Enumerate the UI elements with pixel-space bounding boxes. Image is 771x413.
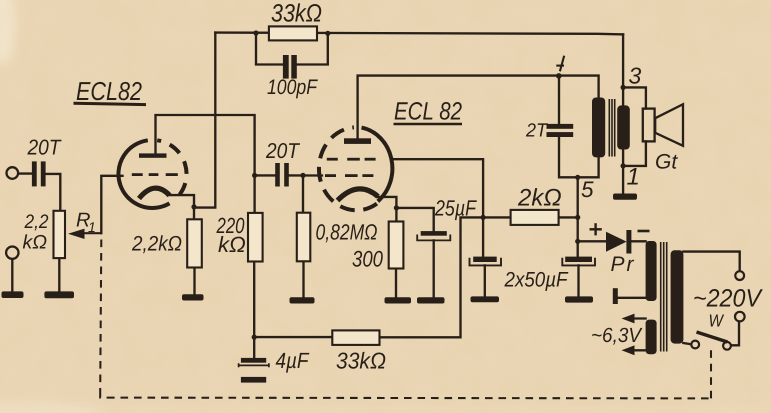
- svg-text:0,82MΩ: 0,82MΩ: [316, 220, 378, 245]
- svg-text:1: 1: [88, 219, 96, 235]
- node: 33k right: [325, 31, 330, 36]
- power transformer 220V winding: [671, 250, 684, 343]
- underline ECL82 first: [74, 103, 147, 104]
- input jack upper: [7, 167, 19, 179]
- output transformer core: [609, 99, 614, 157]
- svg-text:kΩ: kΩ: [218, 232, 246, 257]
- node: 33k left: [253, 30, 258, 35]
- wire: speaker top lead: [623, 87, 646, 108]
- svg-text:5: 5: [581, 177, 594, 202]
- wire: 6.3V winding bottom tap: [631, 349, 646, 351]
- capacitor 4uF: [239, 358, 269, 383]
- scan artifact: light top-left edge: [0, 0, 16, 65]
- wire: 2.2k cathode resistor to ground: [193, 268, 195, 295]
- capacitor 100pF: [283, 55, 297, 79]
- wire: 6.3V winding top tap: [631, 317, 646, 319]
- wire: screen grid line to 2k node: [392, 159, 483, 256]
- tube V1 ECL82 triode: envelope: [118, 140, 186, 208]
- underline ECL 82 second: [394, 123, 463, 125]
- node: coupling cap left: [252, 173, 257, 178]
- svg-text:4µF: 4µF: [276, 348, 310, 373]
- tube V2 cathode: [338, 189, 379, 201]
- minus sign: [638, 230, 650, 233]
- wire: tube1 plate to coupling cap corner: [156, 115, 255, 175]
- ground: 50uF B: [565, 296, 593, 302]
- wire: 4uF node to 33k feedback resistor: [254, 336, 332, 338]
- ground: under transformer pin 1: [613, 194, 637, 200]
- ground: 50uF A: [471, 296, 500, 302]
- wire: tube2 cathode lead: [378, 197, 397, 222]
- switch W lever: [697, 332, 728, 342]
- wire: 2T cap bottom to transformer bottom line: [559, 137, 599, 177]
- capacitor 20T input: [32, 161, 46, 186]
- switch W contact left: [691, 341, 699, 349]
- ground: 25uF: [417, 297, 445, 303]
- resistor 2.2k pot body R1: [54, 211, 66, 258]
- node: tube2 cathode: [394, 205, 399, 210]
- power transformer HT bottom terminal bar: [613, 288, 618, 304]
- node: 4uF: [252, 335, 257, 340]
- svg-text:~6,3V: ~6,3V: [591, 324, 643, 347]
- wire: 20T cap down to pot top: [46, 174, 61, 211]
- R1 wiper arrow line: [82, 232, 101, 234]
- wire: 2T cap top lead: [558, 76, 560, 124]
- wire: grid node down to 0.82M: [302, 175, 304, 212]
- node: speaker pin 1: [621, 163, 626, 168]
- resistor 33k top: [269, 26, 317, 40]
- node: tube2 grid: [300, 173, 305, 178]
- plus sign: [590, 223, 602, 235]
- svg-text:2x50µF: 2x50µF: [504, 269, 569, 292]
- scan artifact: light bottom edge: [0, 408, 771, 413]
- node: screen/50uF: [481, 215, 486, 220]
- svg-text:33kΩ: 33kΩ: [271, 0, 322, 28]
- resistor 0.82M: [297, 213, 311, 262]
- svg-text:25µF: 25µF: [434, 196, 477, 221]
- svg-text:3: 3: [629, 63, 642, 89]
- tube V2 plate: [344, 138, 371, 144]
- power transformer HT winding: [646, 241, 657, 301]
- svg-text:Gt: Gt: [655, 151, 678, 174]
- ground: lower input jack: [2, 291, 24, 298]
- speaker Gt: [643, 104, 683, 146]
- wire: pin5 node down through 2k node and diode node: [577, 177, 579, 256]
- svg-text:100pF: 100pF: [267, 76, 318, 99]
- wire: top feedback bus from node above tube1 to speaker node 3: [215, 33, 623, 35]
- tube V1 cathode: [139, 188, 170, 198]
- tube V1 plate: [139, 153, 167, 157]
- node: transformer pin 5: [575, 175, 580, 180]
- svg-text:20T: 20T: [27, 136, 63, 160]
- resistor 220k: [248, 213, 263, 262]
- node: transformer pin 4: [556, 73, 562, 79]
- wire: pot bottom to ground: [58, 258, 60, 292]
- node: speaker pin 3: [621, 85, 626, 90]
- diode Pr: [606, 230, 631, 254]
- svg-text:2,2: 2,2: [24, 211, 49, 233]
- wire: 100pF right branch: [296, 33, 328, 64]
- svg-text:ECL 82: ECL 82: [394, 98, 462, 126]
- node: 2k right B+: [575, 215, 580, 220]
- wire: lower input jack stem: [11, 259, 13, 292]
- wire: tube1 cathode lead: [169, 195, 195, 219]
- resistor 2.2k cathode: [187, 219, 202, 267]
- wire: 220V winding top tap to terminal: [683, 252, 739, 271]
- node: tube1 cathode: [191, 204, 196, 209]
- resistor 2k: [511, 210, 559, 225]
- svg-text:W: W: [709, 311, 725, 331]
- svg-text:2,2kΩ: 2,2kΩ: [131, 233, 182, 256]
- wire: switch to upper mains terminal: [731, 322, 739, 346]
- scan artifact: light bottom-left corner: [0, 401, 100, 413]
- wire: 50uF A stem to ground: [484, 265, 486, 296]
- wire: 220k bottom lead down to 4uF node: [253, 262, 255, 359]
- tube V2 ECL82 pentode: envelope: [319, 127, 392, 210]
- svg-text:ECL82: ECL82: [76, 76, 142, 106]
- wire: 100pF left branch: [256, 33, 285, 65]
- svg-text:Pr: Pr: [611, 253, 636, 276]
- ground: 0.82M: [290, 297, 315, 303]
- wire: cathode node to 25uF: [396, 208, 433, 231]
- wire: 20T cap2 left lead: [255, 174, 276, 176]
- wire: 2k right lead: [559, 216, 578, 218]
- ground: 300 ohm: [385, 297, 412, 303]
- wire: 50uF B stem to ground: [577, 265, 579, 296]
- arrow: 6.3V top tap: [622, 314, 635, 324]
- wire: diode anode lead: [578, 240, 606, 242]
- tube V2 control grid dashes: [325, 174, 373, 177]
- ground: pot R1: [44, 291, 74, 298]
- capacitor 25uF electrolytic: [417, 231, 450, 240]
- mains terminal lower: [735, 312, 745, 322]
- resistor 33k feedback: [332, 330, 379, 345]
- svg-text:1: 1: [627, 164, 640, 191]
- capacitor 20T interstage: [275, 163, 289, 187]
- wire: HT winding bottom tap: [618, 297, 646, 299]
- capacitor 50uF A: [470, 257, 502, 266]
- wire: 25uF to ground: [433, 240, 435, 297]
- wire: 33k feedback to 2k node: [380, 217, 511, 337]
- wire: speaker bottom lead: [623, 141, 646, 166]
- wire: 220V winding bottom tap to switch: [683, 343, 690, 344]
- wire: 20T cap2 right lead to tube2 grid: [289, 174, 322, 176]
- label 4 (transformer pin, drawn strokes): [556, 56, 564, 72]
- input jack lower: [6, 247, 18, 259]
- output transformer secondary winding: [617, 105, 630, 149]
- tube V2 screen grid dashes: [327, 158, 376, 161]
- power transformer core: [661, 242, 667, 352]
- tube V1 grid dashes: [132, 173, 178, 176]
- switch W contact right: [723, 342, 731, 350]
- wire: R1 wiper up to tube1 grid: [101, 176, 122, 233]
- svg-text:33kΩ: 33kΩ: [336, 348, 386, 374]
- svg-text:2kΩ: 2kΩ: [517, 185, 562, 212]
- svg-text:20T: 20T: [265, 139, 301, 163]
- svg-text:~220V: ~220V: [693, 285, 763, 313]
- wire: coupling cap node down to 220k: [253, 175, 255, 213]
- wire: left feedback vertical down to tube1 cathode node: [194, 33, 215, 208]
- wire: diode cathode lead to power transformer: [630, 240, 645, 242]
- capacitor 2T: [547, 124, 574, 137]
- capacitor 50uF B: [562, 257, 595, 266]
- power transformer 6.3V winding: [646, 320, 657, 355]
- dashed chassis line from R1 wiper around bottom to mains switch: [100, 240, 711, 399]
- ground: 2.2k cathode resistor: [182, 294, 204, 300]
- node: diode anode: [575, 239, 580, 244]
- wire: 300 ohm to ground: [395, 269, 397, 298]
- R1 wiper arrowhead: [68, 229, 85, 239]
- svg-text:2T: 2T: [525, 121, 548, 142]
- arrow: 6.3V bottom tap: [622, 345, 635, 355]
- wire: 0.82M to ground: [302, 261, 304, 297]
- resistor 300: [389, 222, 404, 269]
- mains terminal upper: [735, 271, 744, 280]
- wire: input jack to 20T cap: [19, 172, 32, 174]
- wire: tube2 plate stem up and across to output transformer: [358, 76, 599, 139]
- svg-text:kΩ: kΩ: [23, 232, 48, 254]
- output transformer primary winding: [592, 98, 605, 158]
- wire: speaker node vertical (pin 3 to pin 1 to ground): [622, 34, 624, 193]
- svg-text:300: 300: [352, 247, 383, 272]
